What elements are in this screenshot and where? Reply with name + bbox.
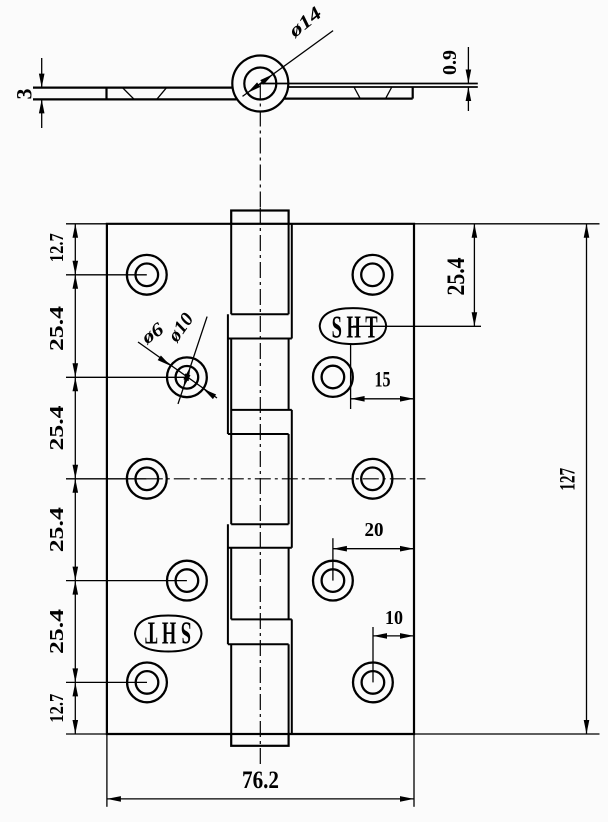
dim 3 (leaf thickness) — [41, 58, 43, 88]
svg-text:0.9: 0.9 — [440, 50, 461, 75]
right leaf second surface line — [288, 86, 478, 88]
hole top-left inner — [136, 264, 159, 287]
dim 127 line — [586, 224, 588, 734]
dim 15 extension — [350, 344, 352, 409]
hole row4-left inner — [176, 569, 199, 592]
row line top — [66, 274, 147, 276]
dim 10 extension — [372, 627, 374, 682]
knuckle joint line 8 — [228, 643, 289, 645]
barrel left main edge seg4 — [230, 644, 232, 734]
dim 0.9 (knuckle offset) — [467, 47, 469, 84]
svg-text:12.7: 12.7 — [46, 694, 68, 723]
barrel right outer edge segment 2 — [291, 410, 293, 548]
barrel right outer edge segment 1 — [291, 224, 293, 339]
svg-text:25.4: 25.4 — [46, 507, 68, 552]
dim diameter 6 line — [138, 342, 217, 398]
knuckle joint line 2 — [228, 338, 292, 340]
hole bottom-left inner — [136, 671, 159, 694]
dim 25.4 right line — [473, 224, 475, 326]
right leaf top surface line — [260, 83, 478, 85]
hole mid-left outer — [127, 459, 167, 499]
svg-text:S H T: S H T — [332, 309, 378, 345]
svg-text:12.7: 12.7 — [46, 233, 68, 262]
hole bottom-right outer — [353, 663, 393, 703]
dim 76.2 extension right — [413, 734, 415, 807]
knuckle joint line 7 — [231, 618, 292, 620]
left leaf countersink right slant — [157, 88, 167, 100]
barrel right main edge seg5 — [288, 644, 290, 734]
hole mid-right inner — [361, 468, 384, 491]
logo SHT right outline — [320, 308, 387, 344]
svg-text:76.2: 76.2 — [242, 767, 279, 794]
svg-text:127: 127 — [555, 468, 580, 491]
logo SHT left outline (rotated 180) — [135, 616, 202, 652]
barrel centerline vertical — [259, 208, 261, 766]
hole top-right inner — [361, 264, 384, 287]
hole bottom-left outer — [127, 663, 167, 703]
dim 76.2 extension left — [106, 734, 108, 807]
left leaf countersink left slant — [122, 88, 133, 100]
hole mid-left inner — [136, 468, 159, 491]
hole row2-right outer — [313, 357, 353, 397]
barrel right main edge seg1 — [288, 224, 290, 314]
barrel right outer edge segment 3 — [291, 619, 293, 734]
left leaf end vertical — [105, 88, 107, 100]
dim 15 line — [351, 398, 414, 400]
knuckle outer circle — [232, 56, 288, 112]
logo SHT right row line — [353, 325, 481, 327]
svg-text:25.4: 25.4 — [443, 257, 470, 295]
right plate outline — [289, 224, 414, 734]
hole row4-right inner — [322, 569, 345, 592]
svg-text:25.4: 25.4 — [46, 306, 68, 351]
svg-text:S H T: S H T — [145, 616, 191, 652]
knuckle joint line 3 — [231, 409, 292, 411]
barrel right main edge seg3 — [288, 434, 290, 524]
right leaf end step vertical — [412, 87, 414, 99]
barrel right main edge seg4 — [288, 548, 290, 620]
barrel top cap — [231, 211, 288, 224]
svg-text:15: 15 — [375, 367, 391, 392]
svg-text:20: 20 — [365, 519, 384, 541]
knuckle joint line 5 — [231, 523, 288, 525]
knuckle centerline vertical — [259, 84, 261, 209]
middle row centerline horizontal — [147, 478, 426, 480]
left leaf bottom edge — [33, 98, 237, 100]
hole top-left outer — [127, 255, 167, 295]
svg-text:25.4: 25.4 — [46, 406, 68, 451]
hole row2-left inner — [176, 366, 199, 389]
dim 20 extension — [332, 538, 334, 580]
hole row4-left outer — [167, 561, 207, 601]
plate top edge extension right — [414, 223, 600, 225]
row line mid — [66, 478, 147, 480]
dim diameter 10 line — [178, 317, 207, 404]
svg-text:25.4: 25.4 — [46, 609, 68, 654]
hole top-right outer — [353, 255, 393, 295]
left leaf top edge (extended left as extension line for dim 3) — [33, 86, 233, 88]
row line bottom — [66, 681, 147, 683]
left plate outline — [107, 224, 231, 734]
knuckle inner circle (pin hole) — [244, 68, 276, 100]
hole bottom-right inner — [362, 671, 385, 694]
right leaf countersink right slant — [386, 87, 392, 99]
barrel bottom cap — [231, 734, 288, 746]
barrel left main edge seg2 — [230, 339, 232, 525]
barrel left outer edge segment 2 — [227, 524, 229, 644]
hole mid-right outer — [353, 459, 393, 499]
row line 2 — [66, 376, 187, 378]
barrel left outer edge segment 1 — [227, 314, 229, 434]
right leaf countersink left slant — [354, 87, 360, 99]
plate top edge extension left — [66, 223, 107, 225]
barrel right main edge seg2 — [288, 339, 290, 410]
plate bottom edge extension left — [66, 733, 107, 735]
left dimension line — [74, 224, 76, 734]
hole row4-right outer — [313, 561, 353, 601]
right leaf bottom edge — [284, 97, 413, 99]
knuckle joint line 1 — [231, 313, 288, 315]
dim 76.2 line — [107, 798, 414, 800]
plate bottom edge extension right — [414, 733, 600, 735]
hole row2-left outer — [167, 357, 207, 397]
knuckle joint line 4 — [228, 433, 289, 435]
row line 4 — [66, 580, 187, 582]
hole row2-right inner — [322, 366, 345, 389]
dim 10 line — [373, 635, 414, 637]
knuckle joint line 6 — [228, 547, 292, 549]
dim line for diameter 14 — [243, 31, 334, 97]
barrel left main edge seg1 — [230, 224, 232, 314]
svg-text:10: 10 — [385, 607, 403, 629]
dim 20 line — [333, 548, 414, 550]
barrel left main edge seg3 — [230, 548, 232, 620]
svg-text:3: 3 — [12, 89, 37, 100]
